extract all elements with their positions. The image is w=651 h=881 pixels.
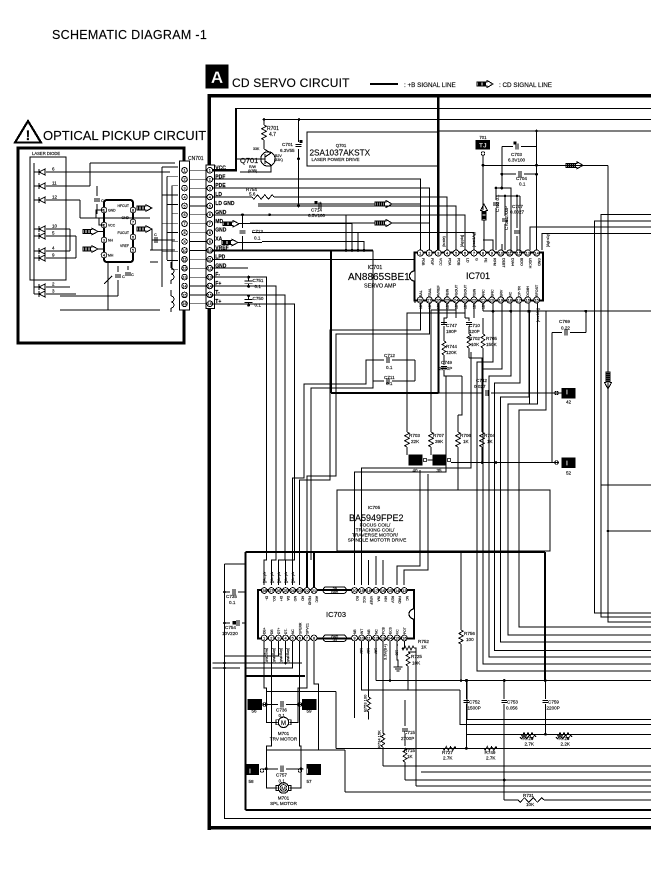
svg-text:25: 25 <box>283 589 287 593</box>
svg-text:2700P: 2700P <box>401 736 414 741</box>
svg-text:POT: POT <box>403 627 407 634</box>
resistor R734 <box>381 733 385 747</box>
svg-text:NH: NH <box>108 239 113 243</box>
svg-text:CD SERVO CIRCUIT: CD SERVO CIRCUIT <box>232 76 350 90</box>
svg-text:7: 7 <box>209 222 211 226</box>
wire optical mesh <box>162 166 178 168</box>
wire I52 line <box>451 462 559 464</box>
svg-text:57: 57 <box>306 779 312 784</box>
svg-text:LD: LD <box>466 258 470 263</box>
resistor R753 <box>459 630 463 644</box>
svg-text:2200P: 2200P <box>547 706 560 711</box>
svg-text:12: 12 <box>208 267 212 271</box>
svg-text:R705: R705 <box>486 336 497 341</box>
capacitor (pickup) <box>96 186 98 196</box>
svg-text:FEND: FEND <box>307 596 311 606</box>
wire +B rail 2 <box>264 119 651 121</box>
diode D4 <box>38 226 40 232</box>
svg-text:: +B SIGNAL LINE: : +B SIGNAL LINE <box>404 82 456 89</box>
svg-text:0.056: 0.056 <box>506 706 518 711</box>
svg-text:28: 28 <box>262 589 266 593</box>
svg-text:9: 9 <box>353 636 355 640</box>
svg-text:58: 58 <box>248 779 254 784</box>
svg-text:52: 52 <box>566 471 572 476</box>
svg-text:120P: 120P <box>469 329 480 334</box>
svg-text:22: 22 <box>305 589 309 593</box>
svg-text:42: 42 <box>566 400 572 405</box>
svg-text:CP-TR: CP-TR <box>517 286 521 297</box>
svg-text:C735: C735 <box>226 594 237 599</box>
IC703 pin bottom-right 14 <box>387 635 393 641</box>
svg-text:MO: MO <box>293 596 297 602</box>
wire y734.3 line <box>466 733 651 735</box>
CD signal arrow right-top <box>566 162 583 169</box>
CD servo circuit border <box>209 96 651 830</box>
svg-text:13: 13 <box>402 589 406 593</box>
svg-text:1K: 1K <box>407 754 414 759</box>
svg-text:2: 2 <box>209 178 211 182</box>
resistor R753 <box>367 697 371 712</box>
IC703 pin top-right 19 <box>359 588 365 594</box>
terminal 55 <box>248 700 262 710</box>
svg-text:VCC: VCC <box>108 224 116 228</box>
svg-text:BA5949FPE2: BA5949FPE2 <box>349 513 404 523</box>
svg-text:0.1: 0.1 <box>519 182 526 187</box>
terminal I57 <box>307 765 321 775</box>
wire TRV net to resistor line <box>335 691 337 748</box>
capacitor C751 <box>248 277 250 280</box>
svg-text:5.6: 5.6 <box>249 192 256 197</box>
IC703 pin top-left 28 <box>261 588 267 594</box>
svg-text:IC703: IC703 <box>326 610 346 619</box>
IC703 pin top-left 26 <box>276 588 282 594</box>
wire C711/C712 left rail <box>372 250 374 381</box>
wire stair net 7 <box>519 311 651 627</box>
svg-text:IC701: IC701 <box>466 271 490 281</box>
svg-text:180P: 180P <box>446 329 457 334</box>
svg-text:PDA: PDA <box>448 258 452 266</box>
svg-text:2: 2 <box>52 282 55 287</box>
svg-text:M: M <box>281 787 286 793</box>
svg-text:HIN: HIN <box>383 596 387 602</box>
svg-text:(ls:ste): (ls:ste) <box>442 236 446 247</box>
wire nested corner to pin 13 <box>530 227 651 250</box>
inductor L (pickup F lines) <box>171 268 174 274</box>
svg-text:56: 56 <box>251 709 257 714</box>
svg-text:0.1: 0.1 <box>386 365 393 370</box>
svg-text:10: 10 <box>360 636 364 640</box>
svg-text:R706: R706 <box>460 433 471 438</box>
svg-text:4: 4 <box>209 195 211 199</box>
svg-text:3: 3 <box>52 289 55 294</box>
svg-text:M701: M701 <box>278 731 290 736</box>
svg-text:0.1: 0.1 <box>254 236 261 241</box>
svg-text:2.7K: 2.7K <box>525 742 535 747</box>
wire F/T net 0 <box>213 277 266 585</box>
svg-text:701: 701 <box>479 135 487 140</box>
svg-text:HD: HD <box>300 596 304 601</box>
svg-text:27: 27 <box>269 589 273 593</box>
svg-text:CN701: CN701 <box>188 156 204 162</box>
CD signal arrow to RF <box>375 201 392 208</box>
svg-text:PDF: PDF <box>430 258 434 266</box>
svg-text:1BV: 1BV <box>455 302 459 309</box>
svg-text:4: 4 <box>284 636 286 640</box>
svg-text:23: 23 <box>298 589 302 593</box>
svg-text:TRV MOTOR: TRV MOTOR <box>270 737 298 742</box>
svg-text:59: 59 <box>306 709 312 714</box>
capacitor C736 <box>263 703 279 705</box>
IC703 pin bottom-left 7 <box>304 635 310 641</box>
IC701 pin 2 <box>426 250 432 256</box>
svg-text:NB: NB <box>367 629 371 634</box>
wire U corner right 2 <box>601 215 651 618</box>
svg-text:DI+: DI+ <box>279 596 283 601</box>
svg-text:5: 5 <box>209 204 211 208</box>
capacitor (pickup) <box>151 229 153 234</box>
IC701 pin 27 <box>426 297 432 303</box>
wire VCC thick drop to IC701 <box>437 96 439 253</box>
op-amp IC (pickup head amp) <box>104 200 133 262</box>
svg-text:OCMH: OCMH <box>526 286 530 297</box>
svg-text:12: 12 <box>374 636 378 640</box>
svg-text:18: 18 <box>367 589 371 593</box>
svg-text:C753: C753 <box>507 700 518 705</box>
svg-text:[vcs:b1q]: [vcs:b1q] <box>536 308 540 322</box>
svg-text:19: 19 <box>499 297 504 302</box>
IC701 pin 10 <box>498 250 504 256</box>
wire R752 net <box>407 666 409 690</box>
svg-text:6: 6 <box>209 213 211 217</box>
wire <box>258 206 456 250</box>
svg-text:DT-: DT- <box>284 629 288 634</box>
wire lines y780/786/792 <box>405 779 651 781</box>
IC703 pin bottom-left 1 <box>261 635 267 641</box>
svg-text:DEBT: DEBT <box>501 258 505 268</box>
svg-text:NC: NC <box>374 629 378 634</box>
svg-text:C754: C754 <box>225 625 236 630</box>
wire +B rail 3 <box>439 130 651 132</box>
svg-text:1BV: 1BV <box>419 302 423 309</box>
IC703 pin bottom-right 13 <box>380 635 386 641</box>
svg-text:R725: R725 <box>411 654 422 659</box>
IC701 pin 13 <box>525 250 531 256</box>
wire MD arrow <box>223 221 239 228</box>
svg-text:RFOST: RFOST <box>535 284 539 297</box>
svg-text:17: 17 <box>374 589 378 593</box>
IC703 pin bottom-left 8 <box>311 635 317 641</box>
svg-text:[(Ae:ptv: [(Ae:ptv <box>284 571 288 583</box>
svg-text:ANC: ANC <box>481 289 485 297</box>
svg-text:R731: R731 <box>523 793 534 798</box>
svg-text:BDO: BDO <box>519 258 523 266</box>
svg-text:4.7: 4.7 <box>269 132 276 138</box>
svg-text:C736: C736 <box>276 708 287 713</box>
svg-text:24: 24 <box>454 297 459 302</box>
diode D7 <box>38 255 40 261</box>
svg-text:1BV: 1BV <box>464 302 468 309</box>
wire y724.5 line <box>460 690 651 725</box>
IC703 pin top-left 21 <box>311 588 317 594</box>
svg-text:R703: R703 <box>409 433 420 438</box>
resistor R729 <box>521 733 533 737</box>
wire TRV motor loop <box>266 704 277 722</box>
svg-text:NB: NB <box>353 629 357 634</box>
IC701 pin 15 <box>534 297 540 303</box>
svg-text:1BV: 1BV <box>473 302 477 309</box>
terminal 40 <box>409 455 422 465</box>
svg-text:SCHEMATIC DIAGRAM -1: SCHEMATIC DIAGRAM -1 <box>52 28 207 42</box>
IC701 pin 11 <box>507 250 513 256</box>
svg-text:C703: C703 <box>511 152 522 157</box>
wire IC703 bottom-right drops to network <box>354 641 356 718</box>
IC701 pin 5 <box>453 250 459 256</box>
svg-text:I: I <box>566 390 568 397</box>
svg-text:LASER POWER DRIVE: LASER POWER DRIVE <box>312 157 360 162</box>
wire R725 bottom <box>415 652 417 786</box>
svg-text:20: 20 <box>352 589 356 593</box>
svg-text:VC: VC <box>396 629 400 634</box>
IC703 pin top-left 22 <box>304 588 310 594</box>
resistor R729 symbol <box>520 735 536 739</box>
wire line y772 <box>421 771 651 773</box>
svg-text:I: I <box>307 769 309 776</box>
svg-text:C704: C704 <box>516 176 527 181</box>
wire <box>240 188 429 250</box>
svg-text:12: 12 <box>182 267 186 271</box>
svg-text:21: 21 <box>312 589 316 593</box>
IC703 pin top-right 15 <box>387 588 393 594</box>
wire y748.4 line <box>336 747 651 749</box>
wire IC701 pin drops to IC703 <box>300 303 421 585</box>
wire rows down verticals <box>283 224 352 251</box>
svg-text:1K: 1K <box>463 439 470 444</box>
svg-text:AN8865SBE1: AN8865SBE1 <box>348 272 410 283</box>
wire pin13 drop <box>528 311 530 404</box>
wire stair net <box>495 303 651 651</box>
variable resistor (pickup) <box>107 262 109 290</box>
svg-text:IC701: IC701 <box>368 265 383 271</box>
svg-text:SPINDLE MOTOTR DRIVE: SPINDLE MOTOTR DRIVE <box>348 538 407 544</box>
wire C703 stubs <box>501 147 503 189</box>
wire pickup IC left pin stubs <box>98 231 104 233</box>
svg-text:OPTICAL PICKUP CIRCUIT: OPTICAL PICKUP CIRCUIT <box>43 128 206 143</box>
svg-text:14: 14 <box>388 636 392 640</box>
svg-text:AVC: AVC <box>315 596 319 603</box>
svg-text:C757: C757 <box>276 773 287 778</box>
svg-text:R727: R727 <box>442 750 453 755</box>
svg-text:14: 14 <box>534 250 539 255</box>
wire <box>150 207 152 209</box>
svg-text:VREF: VREF <box>369 596 373 605</box>
svg-text:G: G <box>475 258 479 261</box>
IC701 pin 16 <box>525 297 531 303</box>
svg-text:10: 10 <box>182 249 186 253</box>
svg-text:120K: 120K <box>446 350 458 355</box>
capacitor C747 sym <box>444 318 447 321</box>
laser diode box <box>30 157 66 280</box>
wire C742 line to I42 <box>439 392 483 394</box>
svg-text:13: 13 <box>525 250 530 255</box>
IC703 pin top-right 17 <box>373 588 379 594</box>
svg-text:0.027: 0.027 <box>474 384 486 389</box>
wire R706 feed <box>458 376 462 415</box>
capacitor C714 <box>315 201 318 204</box>
wire LPD net <box>213 259 415 303</box>
wire <box>252 233 474 250</box>
wire stair net <box>483 303 651 664</box>
wire IC703 bottom-left bends <box>225 641 279 656</box>
svg-text:2: 2 <box>183 178 185 182</box>
CD servo circuit border bottom <box>208 826 651 829</box>
wire XA arrow <box>222 239 238 246</box>
IC703 pin bottom-right 15 <box>394 635 400 641</box>
svg-text:HFCUT: HFCUT <box>118 204 130 208</box>
wire y719.5 line <box>467 681 651 720</box>
svg-text:GND: GND <box>331 590 339 594</box>
svg-text:[Aeg:ptvK]: [Aeg:ptvK] <box>279 648 283 663</box>
svg-text:15: 15 <box>388 589 392 593</box>
svg-text:DA: DA <box>286 596 290 601</box>
CD signal arrow out of pickup IC <box>137 205 152 212</box>
svg-text:!: ! <box>26 127 31 143</box>
svg-text:NC: NC <box>291 629 295 634</box>
svg-text:10K: 10K <box>471 342 480 347</box>
svg-text:11: 11 <box>183 258 187 262</box>
svg-text:27: 27 <box>427 297 432 302</box>
svg-text:: CD SIGNAL LINE: : CD SIGNAL LINE <box>499 82 552 89</box>
terminal I58 <box>245 765 259 775</box>
capacitor C759 <box>544 681 546 700</box>
wire stair net <box>477 303 651 671</box>
CD signal arrow to RF 2 <box>375 220 392 227</box>
svg-text:4: 4 <box>183 195 185 199</box>
wire C769 stub <box>552 332 562 334</box>
svg-text:[Aeg:ptvK]: [Aeg:ptvK] <box>286 648 290 663</box>
diode D9 <box>38 291 40 297</box>
svg-text:18: 18 <box>508 297 513 302</box>
svg-text:R704: R704 <box>484 433 495 438</box>
wire GND net <box>213 267 248 269</box>
wire VCC feed <box>213 109 236 171</box>
svg-text:1: 1 <box>209 169 211 173</box>
wire Q701 collector <box>240 165 271 172</box>
svg-text:FBOUT: FBOUT <box>455 284 459 297</box>
resistor R701 <box>263 120 265 126</box>
svg-text:C714: C714 <box>311 208 322 213</box>
svg-text:LD GND: LD GND <box>215 201 235 207</box>
capacitor C715 symbol <box>404 718 406 726</box>
svg-text:19: 19 <box>360 589 364 593</box>
svg-text:IC705: IC705 <box>368 505 381 510</box>
svg-text:10: 10 <box>499 250 504 255</box>
diode D1 <box>38 169 40 175</box>
svg-text:C712: C712 <box>384 353 395 358</box>
resistor R702 sym <box>467 334 471 348</box>
svg-text:8: 8 <box>183 231 185 235</box>
svg-text:15: 15 <box>182 293 186 297</box>
svg-text:13: 13 <box>381 636 385 640</box>
svg-text:1500P: 1500P <box>468 706 481 711</box>
wire Q701 base <box>236 158 265 160</box>
capacitor C753 <box>503 681 505 700</box>
terminal 59 <box>303 700 317 710</box>
IC703 pin top-left 24 <box>290 588 296 594</box>
svg-text:1BV: 1BV <box>437 302 441 309</box>
svg-text:[Ag:plq]: [Ag:plq] <box>460 235 464 247</box>
svg-text:16: 16 <box>402 636 406 640</box>
CD signal arrow up into IC701 <box>481 204 488 220</box>
resistor R731 <box>504 799 518 801</box>
legend CD signal line <box>477 81 493 88</box>
svg-text:4: 4 <box>52 246 55 251</box>
IC703 pin bottom-left 2 <box>268 635 274 641</box>
svg-text:12: 12 <box>517 250 522 255</box>
svg-text:INA: INA <box>376 596 380 602</box>
svg-text:GND: GND <box>537 258 541 266</box>
wire <box>246 179 420 250</box>
IC701 pin 19 <box>498 297 504 303</box>
svg-text:11: 11 <box>367 636 371 640</box>
IC703 pin top-right 20 <box>352 588 358 594</box>
IC703 pin bottom-right 16 <box>401 635 407 641</box>
wire C769 drop to I-row <box>551 333 553 463</box>
svg-text:FE: FE <box>483 258 487 263</box>
svg-text:NC: NC <box>508 291 512 297</box>
IC703 pin top-right 18 <box>366 588 372 594</box>
svg-text:[(Ae:ptv: [(Ae:ptv <box>270 571 274 583</box>
svg-text:TBOUT: TBOUT <box>464 284 468 297</box>
svg-text:MD: MD <box>215 219 223 225</box>
svg-text:0.1: 0.1 <box>229 600 236 605</box>
inductor L (pickup T lines) <box>171 296 174 302</box>
IC703 pin bottom-right 12 <box>373 635 379 641</box>
wire SPL motor loop <box>266 769 277 788</box>
IC701 pin 28 <box>417 297 423 303</box>
wire thick +B to IC703 <box>246 551 546 553</box>
svg-text:28: 28 <box>418 297 423 302</box>
box IC705 driver <box>337 490 550 551</box>
svg-text:SERVO AMP: SERVO AMP <box>364 284 397 290</box>
wire pin8 drop <box>314 641 319 750</box>
wire +B rail 1 <box>235 108 651 110</box>
capacitor C713 <box>241 213 244 216</box>
svg-text:GND: GND <box>215 228 227 234</box>
wire cluster bottoms to IC703 <box>355 376 447 585</box>
capacitor (pickup) <box>117 266 119 272</box>
svg-text:A: A <box>211 68 223 87</box>
svg-text:VCC: VCC <box>362 596 366 604</box>
svg-text:C759: C759 <box>548 700 559 705</box>
wire <box>455 303 457 318</box>
svg-text:R749: R749 <box>485 750 496 755</box>
svg-text:1: 1 <box>183 169 185 173</box>
CD signal arrow into pickup IC <box>83 228 98 235</box>
wire nested corner to pin 14 <box>542 234 651 251</box>
IC703 pin top-right 14 <box>394 588 400 594</box>
wire IC703 top-right bends <box>397 470 420 585</box>
svg-text:2.7K: 2.7K <box>443 756 453 761</box>
svg-text:PDB: PDB <box>421 258 425 266</box>
wire C711 net down <box>293 360 373 585</box>
svg-text:FUCUT: FUCUT <box>118 231 130 235</box>
svg-text:PCB: PCB <box>381 626 385 634</box>
svg-text:7: 7 <box>183 222 185 226</box>
wire F/T net 2 <box>213 295 285 585</box>
svg-text:SPL MOTOR: SPL MOTOR <box>270 801 297 806</box>
warning triangle <box>15 121 41 143</box>
box inner thin <box>225 564 651 819</box>
